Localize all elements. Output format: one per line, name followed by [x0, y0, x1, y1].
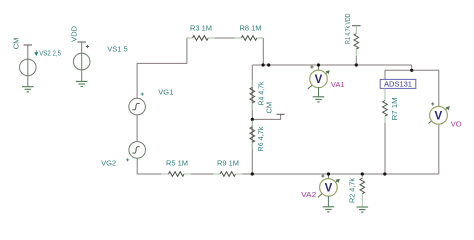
- label R9 1M: [217, 159, 239, 168]
- node label CM (tap): [265, 102, 274, 114]
- resistor R1 with VDD terminal: [352, 26, 361, 65]
- junction dot (CM tap): [251, 118, 254, 121]
- label R5 1M: [166, 159, 188, 168]
- svg-text:CM: CM: [265, 102, 274, 114]
- svg-text:VA1: VA1: [331, 80, 345, 89]
- resistor R6: [250, 121, 255, 150]
- wire (R8 riser down to mid rail): [262, 38, 264, 65]
- ground (VS1): [76, 81, 88, 86]
- wire (between VG1 and VG2): [136, 115, 138, 142]
- junction dots on mid rail: [262, 63, 271, 66]
- resistor R4: [250, 80, 255, 110]
- svg-text:VG1: VG1: [158, 87, 173, 96]
- junction dot (middle branch meets bottom rail): [251, 172, 254, 175]
- label R1 4,7k VDD: [343, 13, 352, 44]
- ground (R2): [357, 207, 369, 212]
- generator VG1: [129, 93, 146, 115]
- wire (top rail): [187, 37, 263, 39]
- svg-text:VS1 5: VS1 5: [107, 45, 127, 54]
- wire (bottom rail): [169, 173, 439, 175]
- svg-text:VO: VO: [451, 120, 462, 129]
- svg-text:VS2 2,5: VS2 2,5: [39, 48, 61, 57]
- voltmeter VA1: [308, 65, 330, 97]
- junction dot (R2 on bottom rail): [361, 172, 364, 175]
- label R6 4,7k: [256, 126, 265, 151]
- svg-text:VDD: VDD: [70, 25, 79, 41]
- wire (mid rail): [252, 65, 411, 70]
- svg-text:ADS131: ADS131: [384, 80, 412, 89]
- ground (VA2): [323, 207, 335, 212]
- wire (middle branch R4/R6): [251, 65, 253, 174]
- label R8 1M: [239, 23, 261, 32]
- label R3 1M: [190, 23, 212, 32]
- resistor R2: [360, 174, 365, 207]
- label VO: [451, 120, 462, 129]
- label VA1: [331, 80, 345, 89]
- label VG1: [158, 87, 173, 96]
- wire (VG2 bottom to bottom rail): [137, 158, 168, 174]
- svg-text:VA2: VA2: [301, 190, 316, 199]
- svg-text:V: V: [434, 111, 442, 123]
- resistor R7: [383, 88, 388, 174]
- resistor R3: [193, 36, 209, 41]
- label R2 4,7k: [347, 178, 356, 203]
- label VS1 5: [107, 45, 127, 54]
- label VS2 2,5: [35, 48, 61, 57]
- junction dot (R1 on mid rail): [355, 63, 358, 66]
- svg-text:R8 1M: R8 1M: [239, 23, 261, 32]
- node CM tap wire and terminal: [252, 114, 284, 119]
- label VG2: [101, 158, 116, 167]
- wire (ADS line y=70.3): [385, 70, 439, 174]
- junction dot (R7 on bottom rail): [383, 172, 386, 175]
- resistor R5: [161, 172, 191, 177]
- voltmeter VO: [428, 102, 450, 124]
- net label VDD (VS1): [70, 25, 79, 41]
- ground (VA1): [313, 97, 325, 102]
- node label CM (left): [11, 38, 20, 50]
- macro block ADS131: [380, 79, 416, 88]
- svg-text:V: V: [325, 183, 333, 195]
- wire (VG1 top riser and jog to top rail): [137, 38, 187, 98]
- label VA2: [301, 190, 316, 199]
- svg-text:R1 4,7k VDD: R1 4,7k VDD: [343, 13, 352, 44]
- svg-text:R3 1M: R3 1M: [190, 23, 212, 32]
- svg-text:V: V: [315, 74, 323, 86]
- label R4 4,7k: [256, 81, 265, 105]
- svg-text:R2 4,7k: R2 4,7k: [347, 178, 356, 203]
- svg-text:R9 1M: R9 1M: [217, 159, 239, 168]
- resistor R9: [213, 172, 242, 177]
- voltage source VS1: [73, 42, 90, 81]
- svg-text:CM: CM: [11, 38, 20, 50]
- voltage source VS2: [20, 45, 37, 87]
- ground (VS2): [22, 87, 34, 92]
- svg-text:R7 1M: R7 1M: [390, 97, 399, 120]
- svg-text:R5 1M: R5 1M: [166, 159, 188, 168]
- junction dot (VA2 on bottom rail): [327, 172, 330, 175]
- svg-text:R6 4,7k: R6 4,7k: [256, 126, 265, 151]
- svg-text:VG2: VG2: [101, 158, 116, 167]
- resistor R8: [241, 36, 257, 41]
- voltmeter VA2: [318, 174, 340, 207]
- junction dot (mid rail meets ADS line): [410, 69, 413, 72]
- label R7 1M: [390, 97, 399, 120]
- junction dot (VA1 on mid rail): [317, 63, 320, 66]
- generator VG2: [126, 142, 146, 162]
